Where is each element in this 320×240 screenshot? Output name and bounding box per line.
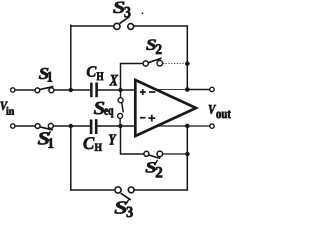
node Y (junction): [118, 124, 122, 128]
junction S2/rail: [185, 61, 190, 66]
label Seq subscript eq: [104, 108, 113, 117]
wire S2 to right rail (faint dotted): [163, 63, 185, 65]
label S2' prime: [156, 160, 158, 163]
label S2 letter S: [146, 40, 156, 50]
junction S2'/rail: [185, 152, 190, 157]
wire bottom rail right segment: [134, 189, 187, 191]
label S1' letter S: [38, 132, 49, 144]
node A' (junction): [69, 124, 73, 128]
label S3' letter S: [115, 202, 127, 214]
label S1 subscript 1: [48, 72, 53, 82]
junction top output/rail: [185, 87, 190, 92]
wire Vin+ lead: [15, 89, 35, 91]
op-amp + input sign (top): [140, 89, 146, 95]
label CH bottom letter C: [84, 137, 95, 149]
label S2' subscript 2: [156, 167, 162, 177]
label S2 subscript 2: [156, 44, 162, 54]
wire right rail lower segment: [186, 126, 188, 190]
label S3' subscript 3: [127, 207, 133, 217]
label S3 letter S: [113, 2, 124, 13]
wire S2' to right rail: [163, 153, 188, 155]
switch Seq (vertical, between X and Y): [118, 90, 124, 126]
node A (junction): [69, 88, 73, 92]
op-amp + output sign (bottom): [148, 115, 155, 122]
label S3 subscript 3: [124, 7, 130, 17]
label CH bottom subscript H: [95, 144, 102, 151]
junction bottom output/rail: [185, 124, 190, 129]
label Seq letter S: [94, 102, 104, 114]
label S1' subscript 1: [48, 138, 53, 148]
wire top rail left segment: [71, 25, 114, 27]
capacitor CH (top): [90, 82, 98, 97]
wire node X up to S2: [121, 64, 144, 91]
wire CH top to node X: [98, 89, 135, 91]
op-amp U1 (fully differential): [135, 80, 196, 136]
wire S1' to capacitor CH bottom: [53, 125, 89, 127]
switch S2: [143, 58, 163, 66]
label Vout letter V: [209, 105, 216, 114]
label node Y: [109, 135, 116, 145]
wire op-amp bottom output to Vout-: [157, 125, 210, 127]
switch S2': [144, 151, 163, 158]
label S3' prime: [126, 199, 128, 203]
wire left vertical (node A' to bottom rail): [70, 126, 72, 190]
terminal Vout+: [210, 87, 214, 91]
ink speck (scan artifact): [142, 12, 144, 14]
wire node Y down to S2': [121, 126, 144, 154]
wire left vertical (top rail to node A): [70, 25, 72, 90]
label S2' letter S: [146, 162, 157, 172]
label Vout subscript out: [216, 111, 230, 119]
capacitor CH (bottom): [90, 119, 98, 134]
label CH top letter C: [87, 66, 97, 76]
label Vin letter V: [1, 102, 8, 110]
wire Vin- lead: [15, 125, 35, 127]
label S1 letter S: [39, 68, 49, 79]
label CH top subscript H: [97, 72, 104, 80]
wire top rail right segment: [134, 25, 188, 27]
node X (junction): [118, 88, 122, 92]
wire op-amp top output to Vout+: [187, 89, 210, 91]
label Vin subscript in: [6, 107, 14, 115]
label node X: [109, 75, 118, 85]
switch S1: [35, 86, 54, 92]
terminal Vout-: [210, 124, 214, 128]
wire S1 to capacitor CH top: [54, 89, 90, 91]
terminal Vin-: [11, 124, 15, 128]
switch S3: [114, 17, 134, 30]
switch S3': [115, 187, 134, 200]
wire bottom rail left segment: [71, 189, 115, 191]
op-amp - input sign (bottom): [140, 117, 146, 119]
wire right rail upper segment: [186, 26, 188, 90]
label S1' prime: [49, 131, 51, 135]
op-amp - output sign (top): [149, 91, 155, 93]
terminal Vin+: [11, 88, 15, 92]
wire op-amp top edge to top output junction (thin): [157, 89, 186, 91]
switch S1': [35, 123, 53, 129]
wire CH bottom to node Y: [98, 125, 135, 127]
